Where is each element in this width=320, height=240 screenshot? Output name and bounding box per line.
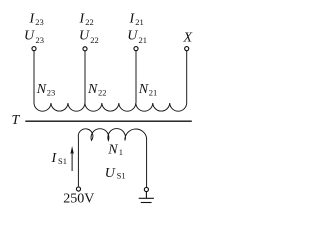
svg-text:X: X <box>183 31 193 46</box>
label I22 <box>79 12 94 27</box>
svg-text:1: 1 <box>119 147 123 157</box>
svg-text:U: U <box>79 28 90 43</box>
terminal node 250V <box>76 187 80 191</box>
svg-text:23: 23 <box>36 35 45 45</box>
label I23 <box>29 12 44 27</box>
terminal node U23 <box>32 47 36 51</box>
svg-text:S1: S1 <box>58 156 67 166</box>
svg-text:U: U <box>105 166 116 181</box>
secondary winding (tapped, 9 loops) <box>34 103 187 111</box>
wire tap 22 <box>84 51 86 103</box>
svg-text:23: 23 <box>35 17 44 27</box>
label N21 <box>138 82 158 97</box>
svg-text:U: U <box>24 28 35 43</box>
label US1 <box>105 166 126 181</box>
terminal node U22 <box>83 47 87 51</box>
label N22 <box>87 82 107 97</box>
primary winding N1 with leads <box>78 129 146 187</box>
svg-text:21: 21 <box>139 35 148 45</box>
svg-text:T: T <box>12 113 21 128</box>
svg-text:N: N <box>36 82 47 97</box>
wire tap 21 <box>135 51 137 103</box>
core line T <box>25 120 192 122</box>
terminal node X <box>185 47 189 51</box>
label N23 <box>36 82 56 97</box>
svg-text:N: N <box>138 82 149 97</box>
svg-text:23: 23 <box>47 87 56 97</box>
svg-text:250V: 250V <box>63 191 94 205</box>
label N1 <box>107 142 123 157</box>
svg-text:S1: S1 <box>117 171 126 181</box>
svg-text:N: N <box>107 142 118 157</box>
svg-text:U: U <box>127 28 138 43</box>
svg-text:22: 22 <box>90 35 99 45</box>
svg-text:21: 21 <box>149 87 158 97</box>
label I21 <box>129 12 144 27</box>
label U22 <box>79 28 99 45</box>
terminal node at ground <box>144 187 148 191</box>
svg-text:22: 22 <box>98 87 107 97</box>
wire tap 23 <box>33 51 35 103</box>
ground (earth) symbol <box>139 192 154 203</box>
svg-text:N: N <box>87 82 98 97</box>
terminal node U21 <box>134 47 138 51</box>
current arrow IS1 <box>70 146 73 171</box>
svg-text:22: 22 <box>85 17 94 27</box>
wire X <box>186 51 188 103</box>
label U21 <box>127 28 147 45</box>
svg-text:21: 21 <box>135 17 144 27</box>
label U23 <box>24 28 44 45</box>
label IS1 <box>51 151 67 166</box>
